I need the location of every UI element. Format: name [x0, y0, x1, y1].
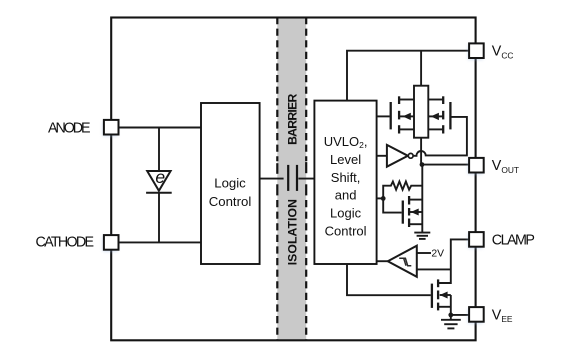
wire comparator output to clamp node — [417, 268, 451, 270]
svg-text:and: and — [335, 188, 357, 203]
wire inverter output to pmos Q2 gate (with hop) — [413, 117, 467, 156]
svg-text:VOUT: VOUT — [492, 158, 519, 175]
wire diode cathode branch — [158, 193, 160, 243]
wire uvlo bottom to nmos Q4 gate — [347, 264, 431, 295]
pin square glow effects — [103, 45, 483, 323]
pmos Q2 (right) — [428, 96, 450, 133]
svg-text:Shift,: Shift, — [331, 170, 361, 185]
svg-text:VEE: VEE — [492, 307, 513, 324]
svg-text:2V: 2V — [431, 248, 444, 259]
pmos pair center plate — [414, 86, 428, 138]
block Logic Control — [201, 103, 260, 264]
capacitor isolation plates — [288, 165, 297, 191]
wire vcc to pmos pair riser — [420, 51, 422, 86]
pin ANODE — [104, 120, 119, 135]
wire pullup bus to nmos Q3 and ground — [421, 165, 423, 233]
ground (below nmos Q4) — [441, 315, 461, 329]
hysteresis symbol — [399, 258, 411, 265]
wire isolation cap to uvlo — [298, 178, 314, 180]
wire diode anode branch — [158, 128, 160, 172]
wire pmos pair to vout riser — [420, 138, 422, 165]
nmos Q4 — [432, 279, 451, 315]
svg-text:ISOLATION: ISOLATION — [285, 199, 299, 265]
pin CLAMP — [469, 232, 484, 247]
emitter diode e — [146, 171, 172, 193]
node VOUT junction — [420, 162, 425, 167]
outer box — [111, 18, 475, 341]
wire cathode — [119, 241, 202, 243]
pmos Q1 (left) — [391, 96, 414, 133]
svg-text:e: e — [155, 167, 165, 187]
pin VCC — [469, 43, 484, 58]
isolation barrier right dashed line — [305, 17, 307, 341]
wire uvlo to pmos Q1 gate — [377, 115, 390, 117]
resistor R1 — [383, 182, 422, 213]
isolation barrier gray band — [277, 17, 306, 342]
ground (below nmos Q3) — [414, 233, 430, 239]
svg-text:Level: Level — [330, 152, 361, 167]
wire logic to isolation cap — [260, 178, 284, 180]
wire comparator 2V reference — [417, 252, 431, 254]
wire vee — [451, 314, 469, 316]
node VEE junction — [448, 313, 453, 318]
svg-text:CLAMP: CLAMP — [492, 232, 535, 248]
block UVLO2 Level Shift and Logic Control — [314, 101, 376, 264]
svg-text:CATHODE: CATHODE — [36, 235, 95, 251]
svg-text:ANODE: ANODE — [48, 121, 91, 137]
svg-text:Control: Control — [325, 224, 367, 239]
svg-text:BARRIER: BARRIER — [285, 94, 299, 145]
wire clamp to nmos Q4 drain — [438, 239, 469, 283]
wire vout — [422, 164, 469, 166]
pin VEE — [469, 307, 484, 322]
isolation barrier left dashed line — [276, 17, 278, 341]
wire uvlo to resistor node — [377, 197, 384, 199]
inverter U2 — [377, 145, 414, 167]
svg-text:VCC: VCC — [492, 44, 514, 61]
nmos Q3 — [403, 196, 423, 227]
node resistor gate junction — [381, 196, 386, 201]
pin VOUT — [469, 158, 484, 173]
svg-text:Logic: Logic — [214, 176, 246, 191]
comparator U3 — [377, 246, 417, 277]
wire uvlo top to vcc — [347, 51, 469, 101]
pin CATHODE — [104, 235, 119, 250]
svg-text:Logic: Logic — [330, 206, 362, 221]
svg-text:Control: Control — [209, 194, 252, 209]
wire anode — [119, 127, 202, 129]
